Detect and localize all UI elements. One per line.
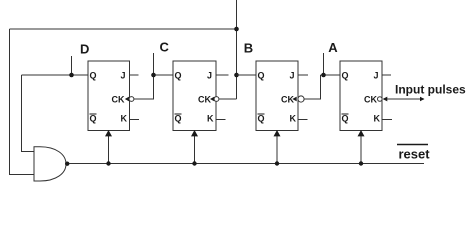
U1 Qbar overbar [90,113,97,115]
svg-text:CK: CK [112,94,125,104]
U2 clear riser [194,133,196,164]
svg-text:B: B [244,41,253,56]
reset overline [397,144,428,146]
svg-text:Input pulses: Input pulses [395,83,466,97]
junction top rail / B vertical [234,27,239,32]
U3 K stub [298,119,308,121]
svg-text:J: J [121,70,126,80]
node D stub [71,56,73,75]
U1 clear arrowhead [105,130,112,136]
svg-text:CK: CK [364,94,377,104]
junction reset/U1 [106,161,110,165]
svg-text:Q: Q [90,114,97,124]
svg-text:J: J [207,70,212,80]
svg-text:Q: Q [175,70,182,80]
U3 clear riser [276,133,278,164]
flip-flop U3 (B) box [256,61,298,131]
svg-text:Q: Q [342,70,349,80]
svg-text:Q: Q [258,114,265,124]
svg-text:reset: reset [399,147,431,162]
svg-text:Q: Q [342,114,349,124]
flip-flop U1 (D) box [88,61,130,131]
wire FF4 Q output [321,74,341,76]
gate G1 (AND) body [34,147,66,181]
U1 J stub [130,74,139,76]
U3 clock arrow [292,97,296,102]
svg-text:A: A [328,40,338,55]
U1 clock arrow [125,97,129,102]
wire FF2 Q output [154,74,174,76]
U4 clock input arrow [383,97,388,102]
wire input pulses [387,98,424,100]
svg-text:Q: Q [90,70,97,80]
wire vertical at node B up to top edge [236,0,238,99]
U4 K stub [382,119,392,121]
U2 clock bubble [214,97,219,102]
svg-text:K: K [374,114,381,124]
svg-text:K: K [121,114,128,124]
U3 Qbar overbar [258,113,265,115]
U2 Qbar overbar [175,113,182,115]
U3 clock bubble [298,96,304,102]
U2 clear arrowhead [191,130,198,136]
node C stub [153,53,155,75]
junction node B [234,73,239,78]
svg-text:Q: Q [175,114,182,124]
svg-text:CK: CK [281,94,294,104]
wire FF1 Q output [22,74,89,76]
svg-text:Q: Q [258,70,265,80]
svg-text:D: D [80,42,89,57]
junction node C [151,73,156,78]
U2 K stub [216,119,226,121]
wire FF4 Q to FF3 clock link [304,75,321,99]
junction reset/U4 [359,161,363,165]
junction node A [321,73,326,78]
U4 clock bubble [378,97,383,102]
wire top rail from node B to left side [10,28,237,30]
U4 clear arrowhead [358,130,365,136]
input wire right arrowhead [420,97,425,101]
svg-text:C: C [160,40,170,55]
U4 J stub [382,74,391,76]
svg-text:J: J [374,70,379,80]
U4 Qbar overbar [342,113,349,115]
svg-text:CK: CK [198,94,211,104]
U2 clock arrow [210,97,214,102]
wire B vertical to FF2 clock [219,98,237,100]
junction reset/U2 [192,161,196,165]
U1 clear riser [108,133,110,164]
flip-flop U2 (C) box [173,61,216,131]
U3 clear arrowhead [274,130,281,136]
svg-text:J: J [290,70,295,80]
gate G1 output bubble dot [65,162,69,166]
U1 K stub [130,119,140,121]
wire from FF1 Q down to gate upper input [22,75,35,152]
U2 J stub [216,74,229,76]
U4 clear riser [360,133,362,164]
svg-text:K: K [290,114,297,124]
wire FF2 clock link: from node C down to U1 bubble [134,75,154,99]
junction node D [69,73,74,78]
wire left vertical from top rail down to gate lower input [10,29,35,175]
U1 clock bubble [129,97,134,102]
junction reset/U3 [275,161,279,165]
wire reset rail [69,163,424,165]
wire FF3 Q output [237,74,257,76]
node A stub [323,53,325,75]
flip-flop U4 (A) box [340,61,382,131]
svg-text:K: K [207,114,214,124]
U3 J stub [298,74,308,76]
